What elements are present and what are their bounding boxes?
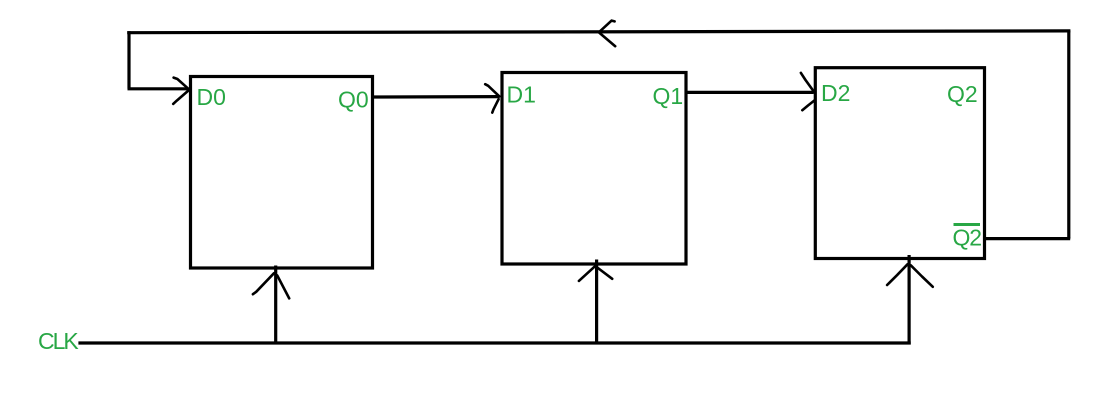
svg-text:D0: D0 <box>197 84 226 110</box>
wire: CLK bus <box>78 341 910 344</box>
overline of Q2-bar <box>954 223 981 226</box>
wire: clock vertical to U3 <box>907 255 910 345</box>
arrowhead at D0 input <box>174 78 189 90</box>
clock chevron at U2 <box>579 266 595 281</box>
wire: Q2bar output to feedback vertical <box>985 237 1071 240</box>
svg-text:Q2: Q2 <box>953 225 982 251</box>
D flip-flop U2 box <box>502 73 686 265</box>
wire: feedback right vertical <box>1067 31 1070 239</box>
clock chevron at U3 <box>887 264 908 285</box>
svg-text:Q1: Q1 <box>653 83 684 109</box>
wire: feedback top horizontal <box>127 31 1070 33</box>
clock chevron at U1 <box>253 273 274 294</box>
arrowhead at D1 input <box>485 84 499 96</box>
svg-text:D1: D1 <box>507 82 536 108</box>
wire: Q0 to D1 <box>373 95 500 99</box>
D flip-flop U1 box <box>191 77 373 269</box>
wire: stub into D0 <box>128 87 188 90</box>
svg-text:Q2: Q2 <box>947 81 978 107</box>
wire: clock vertical to U2 <box>595 260 598 345</box>
svg-text:D2: D2 <box>821 80 850 106</box>
arrowhead at D2 input <box>801 73 815 93</box>
svg-text:Q0: Q0 <box>338 87 369 113</box>
svg-text:CLK: CLK <box>38 328 79 354</box>
arrowhead on top feedback wire (pointing left) <box>599 21 615 33</box>
wire: Q1 to D2 <box>686 91 814 94</box>
wire: feedback left vertical <box>127 31 130 89</box>
D flip-flop U3 box <box>815 68 984 259</box>
wire: clock vertical to U1 <box>274 266 277 345</box>
